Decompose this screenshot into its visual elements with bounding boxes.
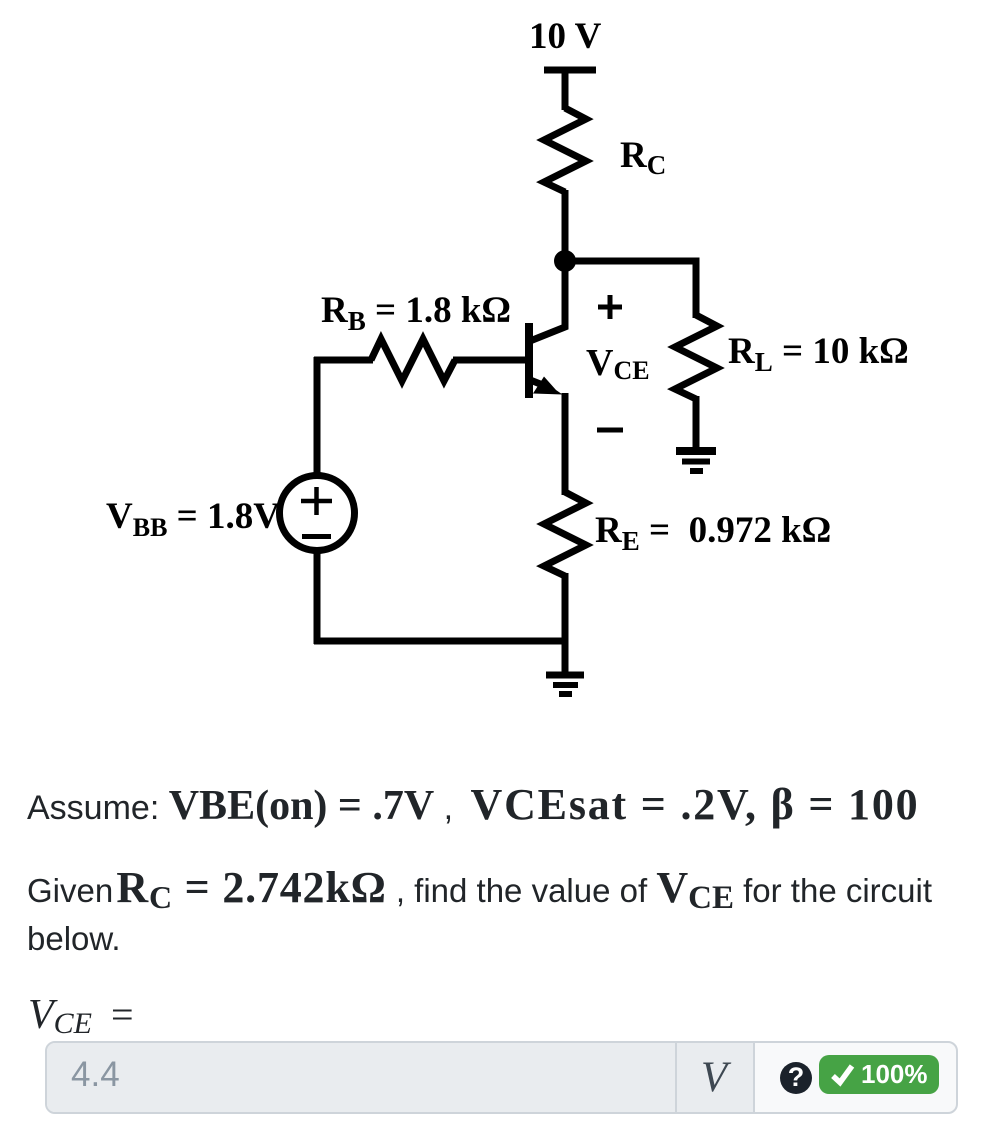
given paragraph xyxy=(27,866,932,913)
svg-text:RB = 1.8 kΩ: RB = 1.8 kΩ xyxy=(321,290,511,336)
circuit schematic xyxy=(0,0,990,770)
wire emitter xyxy=(562,393,569,495)
resistor RB xyxy=(371,339,455,381)
unit V box xyxy=(677,1043,755,1112)
resistor RL xyxy=(675,315,717,399)
wire node to RL branch xyxy=(563,261,696,318)
svg-text:VCE: VCE xyxy=(586,342,650,385)
wire VBB top xyxy=(314,357,321,477)
assume line xyxy=(27,779,919,830)
wire RC to collector node xyxy=(562,190,569,263)
wire rail to RC xyxy=(562,70,569,110)
svg-text:RL = 10 kΩ: RL = 10 kΩ xyxy=(728,331,909,377)
ground (RL) xyxy=(676,451,716,471)
feedback area xyxy=(755,1043,956,1112)
VBB source minus sign xyxy=(302,534,331,539)
wire VBB bottom xyxy=(314,549,321,644)
answer input 4.4 xyxy=(47,1043,677,1112)
wire RL to ground xyxy=(693,396,700,450)
transistor Q1 emitter arrow xyxy=(533,377,563,395)
wire collector xyxy=(530,259,565,341)
VBB source plus sign xyxy=(301,487,332,515)
wire RE to bottom rail xyxy=(562,573,569,641)
transistor Q1 emitter lead xyxy=(529,380,544,386)
ground (emitter) xyxy=(546,675,584,694)
VCE = prompt xyxy=(28,991,134,1041)
svg-text:VBB = 1.8V: VBB = 1.8V xyxy=(106,496,280,542)
transistor Q1 base bar xyxy=(525,323,533,398)
resistor RE xyxy=(544,492,586,576)
answer row xyxy=(45,1041,958,1114)
voltage source VBB xyxy=(280,476,355,551)
VCE plus sign xyxy=(598,295,622,319)
VCE minus sign xyxy=(597,428,623,433)
score badge 100% xyxy=(819,1055,939,1094)
node collector junction dot xyxy=(554,250,576,272)
wire bottom rail xyxy=(314,638,568,645)
svg-text:RC: RC xyxy=(620,135,666,180)
wire base left xyxy=(314,357,373,364)
wire base right xyxy=(453,357,526,364)
resistor RC xyxy=(544,108,586,192)
help icon xyxy=(780,1062,812,1094)
svg-text:RE = 0.972 kΩ: RE = 0.972 kΩ xyxy=(595,510,831,556)
supply rail 10V bar xyxy=(544,67,596,74)
wire emitter to ground xyxy=(562,638,569,672)
svg-text:10 V: 10 V xyxy=(529,16,602,57)
